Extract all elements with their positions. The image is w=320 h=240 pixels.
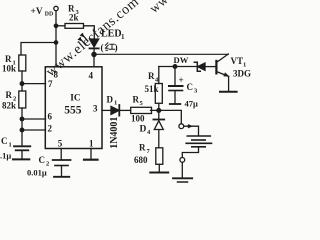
svg-text:2: 2 <box>46 161 49 168</box>
wire top rail <box>94 53 228 55</box>
node VDD-R1 <box>54 41 57 44</box>
ground R7 <box>150 172 168 174</box>
svg-text:C: C <box>187 82 194 92</box>
resistor R7 680 <box>156 148 163 165</box>
node pin7 <box>20 82 24 86</box>
label VT1 3DG <box>231 56 252 79</box>
svg-text:+V: +V <box>31 7 43 17</box>
wire node to corner, down to terminal <box>151 110 182 123</box>
ground emitter <box>220 91 237 93</box>
transistor VT1 3DG <box>215 61 217 74</box>
svg-text:1: 1 <box>243 62 246 69</box>
label R1 10k <box>2 54 16 74</box>
svg-text:2k: 2k <box>69 13 79 23</box>
svg-text:1: 1 <box>9 142 12 149</box>
svg-text:3: 3 <box>194 88 198 95</box>
svg-text:555: 555 <box>64 104 82 116</box>
wire to R1 top <box>21 43 56 56</box>
resistor R5 100 <box>131 107 152 113</box>
svg-text:100: 100 <box>131 113 145 123</box>
terminal +VDD <box>54 6 58 10</box>
svg-text:D: D <box>140 125 147 135</box>
svg-text:3DG: 3DG <box>233 69 251 79</box>
node pin2 <box>20 128 24 132</box>
svg-text:47μ: 47μ <box>185 99 199 109</box>
label R7 680 <box>134 143 151 166</box>
label C2 0.01u <box>27 155 49 178</box>
label D4 <box>140 125 152 137</box>
wire node2 to C1 <box>21 130 23 146</box>
capacitor C1 .1u <box>14 145 30 147</box>
svg-text:VT: VT <box>231 56 244 66</box>
svg-text:C: C <box>39 155 46 165</box>
terminal out bottom <box>180 158 185 163</box>
node LED-pin4 <box>92 52 96 56</box>
svg-text:6: 6 <box>48 112 53 122</box>
watermark www.elecfans.com <box>43 0 171 80</box>
pin labels and IC 555 text <box>48 70 99 149</box>
svg-text:10k: 10k <box>2 64 16 74</box>
label DW <box>174 55 189 65</box>
diode D4 <box>158 110 160 119</box>
wire pin2 <box>22 129 46 131</box>
capacitor C3 47u <box>174 67 176 86</box>
wire VDD vertical to pin8 <box>55 11 57 67</box>
wire R2 to node6 <box>21 108 23 119</box>
svg-text:): ) <box>115 43 118 53</box>
zener DW <box>194 62 200 71</box>
svg-text:5: 5 <box>58 139 63 149</box>
label R4 51k <box>145 71 160 94</box>
svg-text:R: R <box>6 90 13 100</box>
svg-text:DW: DW <box>174 55 189 65</box>
wire to R3 <box>56 25 65 27</box>
ground bottom <box>181 162 183 177</box>
svg-text:LED: LED <box>101 29 122 40</box>
svg-text:(: ( <box>101 43 104 53</box>
wire node6 to node2 <box>21 119 23 130</box>
svg-text:82k: 82k <box>2 101 16 111</box>
diode D1 1N4001 <box>111 106 119 114</box>
wire R3 to LED corner <box>84 26 95 39</box>
svg-text:C: C <box>1 136 8 146</box>
wire pin4 <box>93 54 95 66</box>
svg-text:R: R <box>133 95 140 105</box>
svg-text:0.01μ: 0.01μ <box>27 168 47 178</box>
svg-text:+: + <box>179 75 184 85</box>
svg-text:5: 5 <box>140 100 144 107</box>
svg-text:ww: ww <box>146 0 171 16</box>
svg-text:7: 7 <box>48 79 53 89</box>
resistor R1 10k <box>19 55 26 71</box>
wire pin7 <box>22 83 46 85</box>
svg-text:4: 4 <box>89 71 94 81</box>
svg-text:51k: 51k <box>145 84 159 94</box>
label R2 82k <box>2 90 16 111</box>
wire node7 to R2 <box>21 84 23 91</box>
label C3 47u <box>179 75 199 109</box>
svg-text:R: R <box>5 54 12 64</box>
battery GB <box>187 135 210 137</box>
wire terminal to battery, arrow <box>184 126 199 135</box>
label C1 .1u <box>0 136 12 161</box>
svg-text:DD: DD <box>45 11 53 17</box>
LED arrows <box>82 34 88 41</box>
label R5 100 <box>131 95 145 124</box>
node C3 <box>173 65 177 69</box>
svg-text:.1μ: .1μ <box>0 151 11 161</box>
svg-text:1: 1 <box>114 100 117 107</box>
svg-text:R: R <box>148 71 155 81</box>
label R3 2k <box>68 4 80 23</box>
label LED1 <box>101 29 126 53</box>
IC 555 box U1 <box>45 67 102 149</box>
label D1 1N4001 <box>107 95 121 149</box>
wire DW rail <box>159 66 196 68</box>
node out <box>157 109 161 113</box>
resistor R3 2k <box>65 24 84 29</box>
svg-text:8: 8 <box>54 70 59 80</box>
svg-text:1N4001: 1N4001 <box>109 117 120 149</box>
svg-text:7: 7 <box>147 148 151 155</box>
label +VDD <box>31 7 54 17</box>
wire pin6 <box>22 118 46 120</box>
wire pin1 ground <box>90 149 92 159</box>
terminal out top <box>179 124 184 129</box>
svg-text:4: 4 <box>147 129 151 136</box>
resistor R4 51k vertical <box>158 103 160 110</box>
svg-text:R: R <box>139 143 146 153</box>
svg-text:1: 1 <box>121 33 125 41</box>
svg-text:1: 1 <box>89 139 94 149</box>
svg-text:680: 680 <box>134 155 148 165</box>
node pin6 <box>20 117 24 121</box>
wire R1 to node7 <box>21 71 23 84</box>
svg-text:IC: IC <box>70 94 80 104</box>
resistor R2 82k <box>19 91 26 108</box>
svg-text:D: D <box>107 95 114 105</box>
wire pin3 <box>102 109 111 111</box>
svg-text:3: 3 <box>93 104 98 114</box>
hong (red) glyph hand-drawn <box>105 43 115 50</box>
node VDD-R3 <box>54 24 57 27</box>
capacitor C2 0.01u under pin5 <box>60 149 62 160</box>
svg-text:2: 2 <box>48 124 53 134</box>
LED1 <box>90 39 99 47</box>
